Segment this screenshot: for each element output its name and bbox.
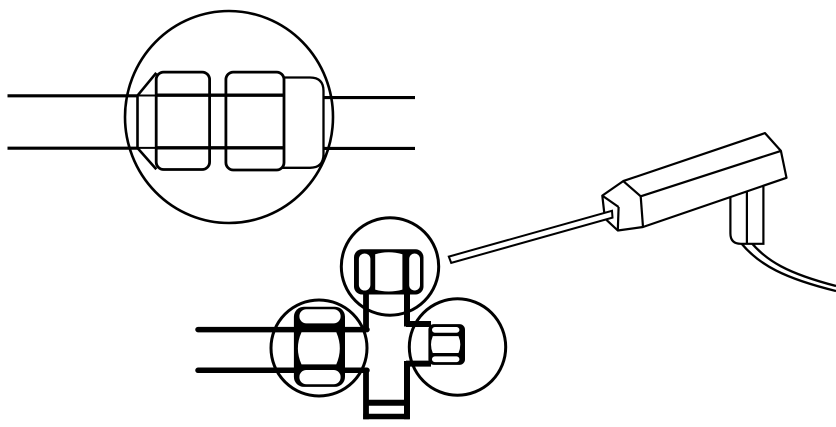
sensor probe needle (449, 211, 613, 263)
supply tube bottom line (198, 368, 367, 374)
ferrule cone (138, 73, 157, 169)
leak detector body silhouette (602, 133, 786, 230)
union nut A (left, magnified) (156, 72, 209, 169)
outlet nut center facet hole (431, 336, 460, 353)
outlet nut top facet hole (432, 327, 459, 333)
body edge: front-left vertical (641, 196, 643, 227)
outlet top edge (406, 321, 431, 327)
valve body bottom edge (366, 414, 407, 420)
magnifier circle: top packing nut (341, 218, 438, 315)
valve body left wall lower (363, 369, 369, 420)
power cord upper line (750, 241, 836, 286)
outlet nut (right, solid) (428, 324, 465, 365)
pipe right top line (324, 96, 416, 99)
body edge: front-top long edge (641, 151, 781, 196)
magnifier circle: right outlet nut (409, 299, 505, 395)
power cord lower line (741, 243, 836, 291)
nose end face top edge (602, 196, 618, 207)
back ferrule cap (right end of coupling) (278, 78, 324, 168)
packing nut center facet hole (375, 252, 402, 291)
packing nut right facet hole (409, 254, 420, 291)
body edge: nose ridge (623, 181, 641, 196)
outlet nut bottom facet hole (432, 356, 459, 362)
detector handle grip divider (746, 192, 748, 244)
valve body left wall upper (363, 292, 369, 331)
pipe right bottom line (324, 147, 416, 150)
magnifier circle: inline coupling detail (125, 11, 333, 223)
compression nut bottom facet hole (299, 370, 340, 384)
supply tube top line (198, 327, 367, 333)
magnifier circle: left compression nut (271, 300, 367, 396)
compression nut center facet hole (298, 332, 340, 364)
valve body right wall lower (404, 361, 410, 419)
compression nut (left, solid) (294, 307, 345, 387)
nose end face inner vertical edge (617, 207, 620, 231)
tube top line through coupling (156, 94, 285, 97)
pipe left top line (8, 94, 138, 97)
tube thin segment through ferrule cone (top) (137, 95, 157, 97)
compression nut top facet hole (299, 309, 340, 323)
outlet bottom edge (406, 361, 431, 367)
union nut B (right, magnified) (226, 72, 284, 170)
tube bottom line through coupling (156, 146, 285, 149)
valve body right wall upper (404, 292, 410, 327)
packing nut left facet hole (359, 254, 371, 291)
tube thin segment through ferrule cone (bottom) (137, 147, 157, 149)
packing nut (top, solid) (354, 249, 424, 294)
pipe left bottom line (8, 147, 138, 150)
detector handle grip (730, 187, 763, 244)
valve body bottom divider (367, 400, 406, 406)
